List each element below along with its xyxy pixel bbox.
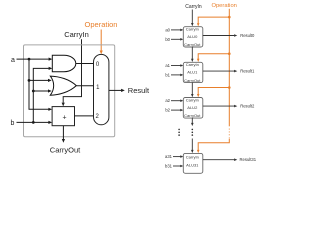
svg-text:a: a bbox=[11, 57, 15, 64]
wire carry ALU2 down bbox=[191, 118, 193, 123]
wire Operation trunk dotted bbox=[228, 129, 230, 138]
wire Operation trunk bottom to ALU31 bbox=[198, 139, 229, 151]
wire CarryIn into ALU0 bbox=[191, 10, 193, 24]
wire Operation branch to ALU1 bbox=[198, 54, 229, 59]
svg-text:CarryOut: CarryOut bbox=[50, 145, 81, 154]
node Operation branch ALU1 bbox=[228, 52, 231, 55]
svg-text:a2: a2 bbox=[165, 98, 170, 103]
svg-text:Operation: Operation bbox=[211, 3, 236, 9]
svg-text:b: b bbox=[11, 120, 15, 127]
wire b vertical branch to AND bbox=[33, 68, 49, 122]
node ellipsis carry chain bbox=[192, 129, 194, 131]
svg-text:Result: Result bbox=[128, 86, 150, 95]
OR gate bbox=[50, 76, 76, 95]
wire Operation trunk bbox=[228, 9, 230, 127]
svg-text:b31: b31 bbox=[165, 164, 173, 169]
svg-text:Operation: Operation bbox=[85, 20, 118, 29]
node ellipsis inputs bbox=[178, 129, 180, 131]
node Operation branch ALU0 bbox=[228, 16, 231, 19]
wire b0 bbox=[171, 38, 181, 40]
wire AND output to mux 0 bbox=[76, 63, 94, 65]
ALU31 box bbox=[183, 153, 203, 173]
wire a vertical branch bbox=[29, 59, 49, 109]
node Operation branch ALU2 bbox=[228, 86, 231, 89]
wire CarryIn down bbox=[63, 39, 81, 103]
ALU0 box bbox=[183, 27, 203, 47]
wire Operation branch to ALU0 bbox=[198, 17, 229, 23]
svg-text:CarryIn: CarryIn bbox=[185, 4, 202, 10]
wire carry into ALU31 bbox=[191, 139, 193, 151]
svg-text:ALU1: ALU1 bbox=[187, 70, 198, 75]
wire Result31 bbox=[203, 159, 235, 161]
svg-text:ALU31: ALU31 bbox=[186, 162, 199, 167]
wire Result1 bbox=[203, 70, 235, 72]
wire Operation branch to ALU2 bbox=[198, 88, 229, 95]
wire b2 bbox=[171, 109, 181, 111]
wire b31 bbox=[173, 165, 181, 167]
svg-text:Result1: Result1 bbox=[240, 69, 255, 74]
wire b to OR gate bbox=[33, 90, 48, 92]
multiplexer bbox=[94, 54, 109, 124]
svg-text:CarryIn: CarryIn bbox=[186, 97, 199, 102]
wire carry ALU1 to ALU2 bbox=[191, 83, 193, 95]
svg-text:b2: b2 bbox=[165, 108, 170, 113]
node a junction bbox=[28, 58, 31, 61]
svg-text:Result2: Result2 bbox=[240, 104, 255, 109]
svg-text:Result31: Result31 bbox=[240, 157, 257, 162]
svg-text:CarryIn: CarryIn bbox=[186, 154, 199, 159]
svg-text:CarryOut: CarryOut bbox=[184, 78, 201, 83]
wire carry ALU0 to ALU1 bbox=[191, 47, 193, 59]
svg-text:+: + bbox=[62, 115, 66, 122]
wire a31 bbox=[173, 156, 181, 158]
svg-text:CarryOut: CarryOut bbox=[184, 113, 201, 118]
wire a to AND gate bbox=[17, 58, 49, 60]
wire b1 bbox=[171, 74, 181, 76]
node a to OR junction bbox=[28, 79, 31, 82]
wire a1 bbox=[171, 65, 181, 67]
wire Result0 bbox=[203, 35, 235, 37]
wire CarryOut bbox=[62, 126, 64, 140]
svg-text:b1: b1 bbox=[165, 72, 170, 77]
svg-text:CarryIn: CarryIn bbox=[64, 30, 89, 39]
wire a2 bbox=[171, 100, 181, 102]
svg-text:a0: a0 bbox=[165, 27, 170, 32]
wire Result2 bbox=[203, 105, 235, 107]
svg-text:b0: b0 bbox=[165, 37, 170, 42]
svg-text:CarryIn: CarryIn bbox=[186, 62, 199, 67]
svg-text:a1: a1 bbox=[165, 63, 170, 68]
node b to OR junction bbox=[32, 90, 35, 93]
svg-text:CarryOut: CarryOut bbox=[184, 42, 201, 47]
svg-text:a31: a31 bbox=[165, 154, 173, 159]
outer box of 1-bit ALU bbox=[24, 45, 115, 137]
svg-text:Result0: Result0 bbox=[240, 33, 255, 38]
wire Result bbox=[109, 89, 121, 91]
wire b to adder bbox=[17, 121, 49, 123]
wire Operation to mux select bbox=[100, 30, 102, 51]
svg-text:ALU0: ALU0 bbox=[187, 34, 198, 39]
AND gate bbox=[52, 55, 75, 71]
svg-text:CarryIn: CarryIn bbox=[186, 27, 199, 32]
node b junction bbox=[32, 121, 35, 124]
ALU1 box bbox=[183, 62, 203, 82]
adder box bbox=[52, 107, 74, 126]
svg-text:ALU2: ALU2 bbox=[187, 105, 198, 110]
wire adder output to mux 2 bbox=[75, 115, 94, 117]
ALU2 box bbox=[183, 98, 203, 119]
wire a to OR gate bbox=[29, 79, 48, 81]
wire a0 bbox=[171, 29, 181, 31]
wire OR output to mux 1 bbox=[76, 85, 93, 87]
